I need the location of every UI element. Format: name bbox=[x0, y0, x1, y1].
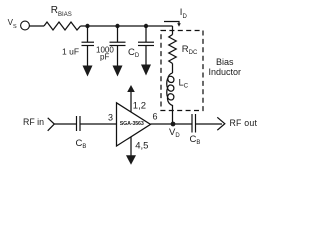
svg-text:pF: pF bbox=[100, 53, 109, 62]
terminal Vs bbox=[21, 21, 30, 30]
resistor RDC bbox=[169, 35, 176, 64]
wire LC to VD node bbox=[172, 105, 174, 124]
inductor LC bbox=[167, 73, 174, 106]
svg-text:3: 3 bbox=[108, 113, 113, 123]
wire CB out to RF out bbox=[196, 123, 223, 125]
wire CB to pin3 bbox=[80, 123, 117, 125]
wire cap CD to ground bbox=[145, 46, 147, 66]
svg-text:1 uF: 1 uF bbox=[62, 47, 79, 57]
svg-text:4,5: 4,5 bbox=[135, 141, 148, 152]
wire bias branch down from rail bbox=[172, 26, 174, 35]
ground arrow CD bbox=[141, 65, 151, 76]
ground arrow down pins 4,5 bbox=[126, 155, 136, 165]
svg-text:RF out: RF out bbox=[230, 118, 258, 128]
capacitor CD bbox=[138, 41, 154, 43]
wire dot2 to cap C2 bbox=[117, 26, 119, 42]
svg-text:SGA-3563: SGA-3563 bbox=[120, 121, 144, 127]
node junction dot 3 bbox=[144, 24, 148, 28]
bias inductor dashed box bbox=[161, 31, 203, 111]
terminal RF in chevron bbox=[48, 118, 55, 131]
ground arrow up pins 1,2 bbox=[127, 85, 135, 92]
wire RF in to CB bbox=[54, 123, 76, 125]
wire dot3 to cap CD bbox=[145, 26, 147, 42]
ground arrow C2 bbox=[113, 66, 123, 77]
capacitor 1uF bbox=[82, 41, 95, 43]
svg-text:Inductor: Inductor bbox=[209, 67, 242, 77]
wire pins 4,5 to ground bbox=[130, 137, 132, 156]
resistor RBIAS bbox=[44, 22, 81, 30]
wire pins 1,2 to ground bbox=[130, 91, 132, 112]
svg-text:Bias: Bias bbox=[216, 57, 234, 67]
node junction dot 1 bbox=[85, 24, 89, 28]
svg-text:6: 6 bbox=[153, 112, 158, 122]
wire cap C2 to ground bbox=[117, 46, 119, 67]
node junction dot 2 bbox=[115, 24, 119, 28]
wire top rail bbox=[81, 25, 173, 27]
wire dot1 to cap C1 bbox=[87, 26, 89, 42]
wire ID annotation arrow bbox=[164, 22, 179, 24]
capacitor CB input bbox=[76, 116, 78, 131]
wire cap C1 to ground bbox=[87, 46, 89, 67]
svg-text:1,2: 1,2 bbox=[133, 101, 146, 112]
wire RDC to LC bbox=[172, 64, 174, 74]
ground arrow C1 bbox=[83, 66, 93, 77]
terminal RF out chevron bbox=[217, 117, 225, 130]
wire Vs to resistor bbox=[30, 25, 45, 27]
node VD junction dot bbox=[171, 122, 176, 127]
wire pin6 to CB out bbox=[151, 123, 193, 125]
capacitor CB output bbox=[191, 114, 193, 133]
op-amp U1 SGA-3563 triangle bbox=[117, 103, 151, 146]
capacitor 1000pF bbox=[110, 41, 126, 43]
svg-text:RF in: RF in bbox=[23, 117, 44, 127]
